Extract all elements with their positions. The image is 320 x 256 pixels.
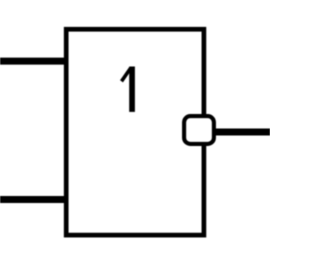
- gate body U1 (IEC rectangle): [66, 29, 204, 235]
- wire output Y: [215, 129, 271, 136]
- value label 1 (stem): [129, 67, 135, 112]
- wire input A: [0, 58, 68, 65]
- value label 1 (flag): [122, 68, 131, 81]
- inversion bubble: [184, 116, 214, 144]
- wire input B: [0, 196, 68, 203]
